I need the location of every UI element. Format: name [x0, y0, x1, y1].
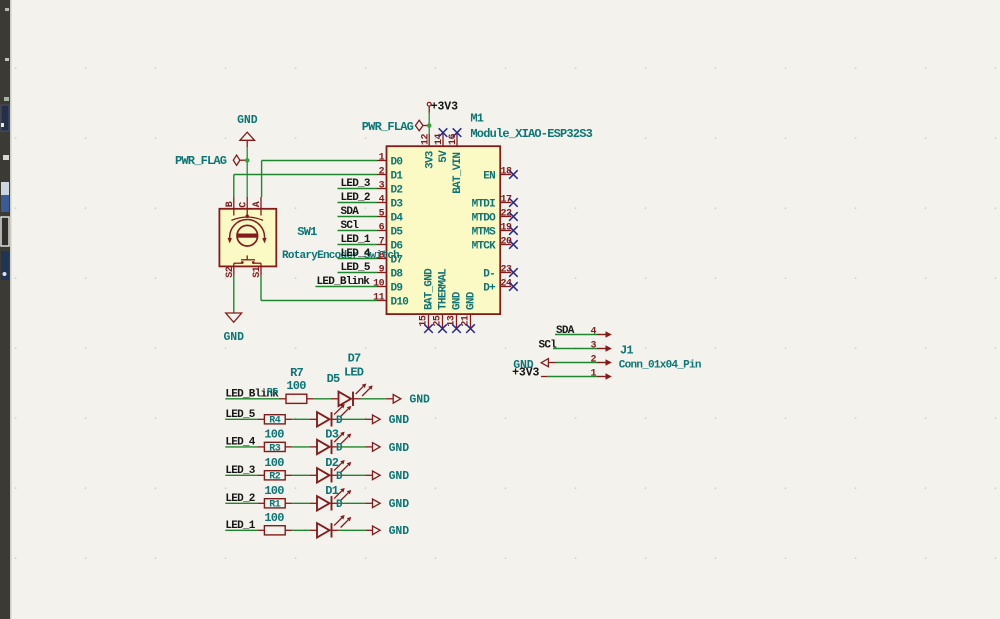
- wire S2 to GND: [233, 275, 235, 313]
- led (ref D3 shown): [309, 428, 351, 455]
- no-connect on pin 23: [509, 268, 518, 277]
- rotary encoder SW1 body: [219, 209, 276, 267]
- label LED_2: [341, 192, 370, 204]
- no-connect on pin 17: [509, 198, 518, 207]
- wire LED_5 to resistor: [225, 418, 257, 420]
- svg-text:3V3: 3V3: [424, 150, 436, 169]
- reference R5 overlap text: [267, 387, 279, 398]
- wire LED_Blink to R7: [225, 398, 279, 400]
- svg-text:MTDI: MTDI: [472, 198, 496, 210]
- power GND row LED_2: [365, 498, 409, 511]
- svg-text:R2: R2: [269, 472, 281, 483]
- wire resistor to led: [292, 529, 309, 531]
- label LED_3 at resistor row: [225, 465, 255, 477]
- wire GND to J1 pin 2: [556, 362, 598, 364]
- connector J1 body Conn_01x04_Pin: [590, 327, 611, 380]
- label SDA at J1: [556, 325, 575, 337]
- svg-text:5: 5: [379, 209, 385, 220]
- pin 3 D2 of M1: [377, 181, 402, 197]
- svg-text:100: 100: [264, 428, 284, 442]
- pin A of SW1: [252, 197, 263, 216]
- svg-text:R1: R1: [269, 500, 281, 511]
- pin 14 5V of M1: [434, 133, 450, 162]
- wire SCl to J1 pin 3: [553, 348, 597, 350]
- svg-text:C: C: [238, 202, 249, 208]
- module U/M1 body Module_XIAO-ESP32S3: [387, 146, 501, 314]
- svg-text:B: B: [225, 201, 236, 207]
- no-connect on pin 22: [509, 212, 518, 221]
- wire LED_1 to pin 7: [338, 244, 378, 246]
- label LED_3: [341, 178, 371, 190]
- pin 22 MTDO of M1: [472, 209, 512, 225]
- label LED_1 at resistor row: [225, 520, 255, 532]
- label LED_2 at resistor row: [225, 493, 254, 505]
- resistor R1: [257, 484, 292, 511]
- svg-text:D5: D5: [327, 372, 340, 386]
- power GND below encoder: [223, 313, 244, 344]
- label SDA: [341, 206, 360, 218]
- wire GND to encoder pin C: [246, 147, 248, 197]
- resistor R2: [257, 456, 292, 483]
- no-connect on pin 20: [509, 240, 518, 249]
- svg-text:BAT_VIN: BAT_VIN: [452, 153, 464, 194]
- resistor R3: [257, 428, 292, 455]
- pin 13 GND of M1: [447, 291, 464, 328]
- svg-text:R5: R5: [267, 387, 279, 398]
- pin 6 D5 of M1: [377, 223, 403, 239]
- resistor R4: [257, 415, 292, 427]
- pin 20 MTCK of M1: [472, 237, 512, 253]
- no-connect on pin 16: [453, 128, 462, 137]
- wire LED_2 to pin 4: [338, 202, 378, 204]
- wire led to GND: [339, 502, 365, 504]
- svg-text:MTCK: MTCK: [472, 240, 497, 252]
- power GND row LED_1: [365, 525, 409, 538]
- wire S1 down: [260, 275, 262, 301]
- svg-text:D2: D2: [325, 456, 338, 470]
- wire SDA to J1 pin 4: [555, 334, 597, 336]
- svg-text:GND: GND: [466, 291, 478, 310]
- encoder rotation arc with arrows: [228, 220, 267, 244]
- svg-text:EN: EN: [483, 170, 495, 182]
- pin 17 MTDI of M1: [472, 195, 512, 211]
- svg-text:GND: GND: [452, 291, 464, 310]
- svg-text:A: A: [252, 201, 263, 207]
- value Conn_01x04_Pin: [619, 360, 701, 372]
- svg-text:11: 11: [373, 293, 385, 304]
- power GND at J1: [513, 359, 555, 372]
- wire resistor to led: [292, 446, 309, 448]
- no-connect on pin 15: [424, 324, 433, 333]
- value Module_XIAO-ESP32S3: [470, 127, 592, 141]
- power GND top-left: [237, 114, 258, 147]
- svg-text:R4: R4: [269, 416, 281, 427]
- power flag PWR_FLAG top: [362, 120, 429, 134]
- pin 4 D3 of M1: [377, 195, 403, 211]
- wire R7 to D7: [314, 398, 331, 400]
- no-connect on pin 18: [509, 170, 518, 179]
- encoder wiper dot: [246, 215, 249, 218]
- svg-text:+3V3: +3V3: [431, 101, 458, 114]
- pin 8 D7 of M1: [377, 251, 402, 267]
- svg-text:D3: D3: [325, 428, 338, 442]
- svg-text:PWR_FLAG: PWR_FLAG: [175, 154, 227, 168]
- svg-text:J1: J1: [620, 344, 633, 358]
- svg-text:4: 4: [590, 327, 596, 338]
- svg-text:GND: GND: [409, 394, 430, 407]
- wire LED_3 to resistor: [225, 474, 257, 476]
- svg-text:D0: D0: [391, 156, 403, 168]
- label LED_5: [341, 262, 371, 274]
- reference SW1: [297, 225, 317, 239]
- svg-text:GND: GND: [389, 442, 410, 455]
- junction at +3V3 node: [427, 123, 432, 128]
- wire encoder A to D0: [261, 161, 263, 198]
- pin C of SW1: [238, 197, 249, 216]
- wire SDA to pin 5: [338, 216, 378, 218]
- svg-text:9: 9: [379, 265, 385, 276]
- svg-text:M1: M1: [470, 112, 483, 126]
- label LED_4: [341, 248, 371, 260]
- wire +3V3 to pin 12: [428, 113, 430, 134]
- svg-text:D1: D1: [391, 170, 404, 182]
- svg-text:12: 12: [420, 133, 431, 145]
- svg-text:7: 7: [379, 237, 385, 248]
- reference M1: [470, 112, 483, 126]
- wire LED_5 to pin 9: [338, 272, 378, 274]
- svg-text:LED: LED: [344, 365, 364, 379]
- led D5: [309, 404, 351, 427]
- svg-text:D4: D4: [391, 212, 404, 224]
- wire LED_3 to pin 3: [338, 188, 378, 190]
- svg-text:D1: D1: [325, 484, 338, 498]
- power +3V3 at J1: [512, 367, 547, 380]
- pin 2 D1 of M1: [377, 167, 403, 183]
- label LED_Blink: [317, 276, 371, 288]
- wire LED_4 to resistor: [225, 446, 257, 448]
- svg-text:SCl: SCl: [539, 339, 558, 351]
- pin 16 BAT_VIN of M1: [448, 133, 464, 193]
- wire D7 to GND: [361, 398, 386, 400]
- svg-text:GND: GND: [389, 498, 410, 511]
- pin 10 D9 of M1: [373, 279, 402, 295]
- svg-text:1: 1: [590, 369, 596, 380]
- wire encoder B riser: [233, 175, 235, 198]
- label LED_Blink at resistor row: [225, 389, 279, 401]
- label SCl: [341, 220, 360, 232]
- svg-text:D5: D5: [391, 226, 404, 238]
- pin 15 BAT_GND of M1: [419, 268, 436, 328]
- svg-text:Module_XIAO-ESP32S3: Module_XIAO-ESP32S3: [470, 127, 592, 141]
- no-connect on pin 13: [452, 324, 461, 333]
- svg-text:SDA: SDA: [556, 325, 575, 337]
- svg-text:6: 6: [379, 223, 385, 234]
- encoder detent arcs: [231, 217, 263, 220]
- led (ref D1 shown): [309, 484, 351, 511]
- svg-text:GND: GND: [389, 525, 410, 538]
- svg-text:THERMAL: THERMAL: [438, 268, 450, 310]
- svg-text:10: 10: [373, 279, 385, 290]
- svg-text:D2: D2: [391, 184, 403, 196]
- svg-text:2: 2: [590, 355, 596, 366]
- svg-text:Conn_01x04_Pin: Conn_01x04_Pin: [619, 360, 701, 372]
- no-connect on pin 24: [509, 282, 518, 291]
- svg-text:SW1: SW1: [297, 225, 317, 239]
- svg-text:D8: D8: [391, 268, 404, 280]
- pin B of SW1: [225, 197, 236, 216]
- wire S1 to D10: [261, 300, 377, 302]
- pin 12 3V3 of M1: [420, 133, 436, 169]
- wire LED_Blink to pin 10: [316, 286, 378, 288]
- svg-text:1: 1: [379, 153, 385, 164]
- pin 18 EN of M1: [483, 167, 512, 183]
- svg-text:100: 100: [264, 456, 284, 470]
- svg-text:R3: R3: [269, 443, 281, 454]
- svg-text:100: 100: [264, 484, 284, 498]
- left toolbar strip: [0, 0, 12, 619]
- pin 25 THERMAL of M1: [433, 268, 450, 328]
- svg-text:GND: GND: [389, 470, 410, 483]
- pin S2 of SW1: [225, 263, 236, 278]
- svg-text:D3: D3: [391, 198, 404, 210]
- led D7: [331, 351, 373, 406]
- wire SCl to pin 6: [338, 230, 378, 232]
- no-connect on pin 19: [509, 226, 518, 235]
- power GND row LED_3: [365, 470, 409, 483]
- svg-text:+3V3: +3V3: [512, 367, 539, 380]
- led (ref D2 shown): [309, 456, 351, 483]
- svg-text:R7: R7: [290, 366, 303, 380]
- svg-text:D7: D7: [348, 351, 361, 365]
- power GND row LED_5: [365, 414, 409, 427]
- svg-text:BAT_GND: BAT_GND: [424, 268, 436, 310]
- power GND row LED_Blink: [386, 394, 430, 407]
- svg-text:D+: D+: [483, 282, 496, 294]
- wire +3V3 to J1 pin 1: [547, 376, 597, 378]
- svg-text:100: 100: [286, 379, 306, 393]
- wire led to GND: [339, 418, 365, 420]
- wire LED_2 to resistor: [225, 502, 257, 504]
- svg-text:D10: D10: [391, 296, 409, 308]
- no-connect on pin 14: [439, 128, 448, 137]
- svg-text:MTMS: MTMS: [472, 226, 497, 238]
- svg-text:GND: GND: [237, 114, 258, 127]
- pin 23 D- of M1: [483, 265, 512, 281]
- wire resistor to led: [292, 474, 309, 476]
- wire row D0: [262, 160, 377, 162]
- svg-text:PWR_FLAG: PWR_FLAG: [362, 120, 414, 134]
- label LED_5 at resistor row: [225, 409, 255, 421]
- svg-text:4: 4: [379, 195, 385, 206]
- wire led to GND: [339, 529, 365, 531]
- wire LED_4 to pin 8: [338, 258, 378, 260]
- label LED_1: [341, 234, 371, 246]
- pin S1 of SW1: [252, 263, 263, 278]
- wire resistor to led: [292, 418, 309, 420]
- label LED_4 at resistor row: [225, 437, 255, 449]
- pin 24 D+ of M1: [483, 279, 512, 295]
- pin 11 D10 of M1: [373, 293, 408, 309]
- encoder knob slot bar: [237, 234, 257, 238]
- power flag PWR_FLAG left: [175, 154, 247, 168]
- reference J1: [620, 344, 633, 358]
- no-connect on pin 25: [438, 324, 447, 333]
- resistor R7: [279, 366, 314, 404]
- value RotaryEncoder_Switch: [282, 250, 399, 262]
- encoder knob circle: [237, 225, 258, 246]
- pin 21 GND of M1: [461, 291, 478, 328]
- svg-text:3: 3: [590, 341, 596, 352]
- pin 7 D6 of M1: [377, 237, 402, 253]
- svg-text:2: 2: [379, 167, 385, 178]
- svg-text:3: 3: [379, 181, 385, 192]
- svg-text:GND: GND: [223, 331, 244, 344]
- svg-text:D-: D-: [483, 268, 495, 280]
- power GND row LED_4: [365, 442, 409, 455]
- reference D5 overlap text: [327, 372, 340, 386]
- wire LED_1 to resistor: [225, 529, 257, 531]
- pin 1 D0 of M1: [377, 153, 402, 169]
- label SCl at J1: [539, 339, 558, 351]
- pin 5 D4 of M1: [377, 209, 403, 225]
- svg-text:MTDO: MTDO: [472, 212, 497, 224]
- svg-text:5V: 5V: [438, 150, 450, 163]
- power +3V3: [427, 101, 458, 114]
- svg-text:D9: D9: [391, 282, 403, 294]
- wire led to GND: [339, 446, 365, 448]
- pin 19 MTMS of M1: [472, 223, 512, 239]
- svg-text:100: 100: [264, 511, 284, 525]
- wire led to GND: [339, 474, 365, 476]
- pin 9 D8 of M1: [377, 265, 403, 281]
- encoder switch contacts: [234, 255, 261, 264]
- no-connect on pin 21: [466, 324, 475, 333]
- svg-text:GND: GND: [389, 414, 410, 427]
- resistor R6: [257, 511, 292, 535]
- led D6: [309, 515, 351, 538]
- wire row D1: [234, 174, 377, 176]
- junction at encoder C node: [245, 158, 250, 163]
- wire resistor to led: [292, 502, 309, 504]
